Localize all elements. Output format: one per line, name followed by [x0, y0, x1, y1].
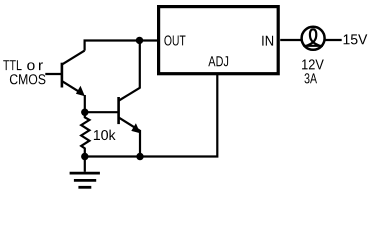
node A junction: [81, 109, 88, 116]
ground: [70, 157, 100, 188]
regulator U1: [159, 7, 279, 74]
pin label IN: [262, 36, 273, 46]
lamp DS1 12V 3A: [302, 27, 325, 50]
wire input lead: [45, 73, 62, 75]
wire Q1 collector jog to top rail: [85, 41, 158, 51]
wire Q1 emitter to node A: [84, 95, 86, 112]
label 12V: [302, 59, 324, 69]
label 3A: [305, 73, 318, 83]
label 15V: [344, 34, 368, 44]
label TTL or CMOS: [3, 60, 45, 84]
junction Q2 emitter on bottom rail: [136, 153, 143, 160]
wire node A to Q2 base: [85, 111, 119, 113]
wire Q2 collector up to top junction: [139, 40, 141, 88]
wire bottom rail to ADJ: [85, 75, 218, 157]
wire Q2 emitter down to bottom rail: [139, 130, 141, 157]
transistor Q1: [62, 51, 85, 97]
junction resistor / ground: [81, 153, 88, 160]
label 10k: [94, 130, 116, 141]
pin label OUT: [164, 35, 185, 45]
junction top rail: [136, 37, 143, 44]
pin label ADJ: [208, 56, 228, 66]
wire lamp to 15V: [325, 39, 342, 41]
transistor Q2: [119, 88, 141, 133]
resistor R1 10k: [81, 112, 89, 156]
wire IN pin to lamp: [280, 39, 301, 41]
